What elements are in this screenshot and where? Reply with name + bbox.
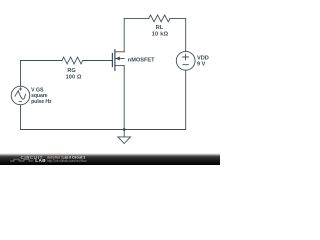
VGS minus — [19, 100, 22, 102]
wire bottom rail — [21, 129, 186, 131]
VGS plus — [19, 88, 22, 91]
drain stub — [115, 51, 124, 53]
VDD minus — [183, 64, 188, 66]
wire top rail left — [124, 17, 149, 19]
wire drain up — [123, 18, 125, 51]
wire VGS top — [20, 61, 22, 87]
ground triangle — [118, 137, 131, 144]
wire VDD top — [185, 18, 187, 51]
resistor RL — [149, 15, 170, 22]
transistor M1 channel bar — [114, 50, 116, 71]
resistor RG — [62, 57, 83, 64]
voltage source V2 VDD circle — [176, 51, 195, 70]
source stub — [115, 65, 124, 67]
logo squarewave — [10, 159, 33, 161]
wire gate row left — [21, 60, 62, 62]
wire source down — [123, 66, 125, 130]
ground stem — [123, 130, 125, 137]
svg-text:http://circuitlab.com/czv9bcz: http://circuitlab.com/czv9bcz — [47, 159, 87, 163]
body stub — [115, 58, 124, 60]
wire VGS bottom — [20, 105, 22, 130]
wire VDD bottom — [185, 70, 187, 129]
VDD plus — [183, 54, 189, 60]
junction node — [123, 128, 126, 131]
wire top rail right — [170, 17, 186, 19]
footer bar — [0, 153, 220, 165]
body arrow — [115, 57, 119, 61]
svg-text:LAB: LAB — [35, 158, 46, 163]
voltage source V1 VGS circle — [11, 86, 30, 105]
transistor M1 gate bar — [111, 54, 113, 67]
VGS waveform — [15, 91, 25, 99]
wire gate row right — [83, 60, 112, 62]
